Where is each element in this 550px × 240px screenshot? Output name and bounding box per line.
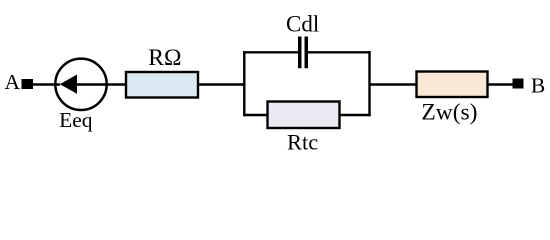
right junction vertical wire bbox=[368, 51, 370, 116]
wire Zw(s) to terminal B bbox=[488, 83, 514, 86]
wire RΩ to node (left vertical) bbox=[198, 83, 245, 86]
resistor RΩ bbox=[126, 72, 198, 98]
wire triangle base to resistor RΩ bbox=[77, 83, 126, 86]
left junction vertical wire bbox=[243, 51, 245, 116]
svg-text:RΩ: RΩ bbox=[148, 45, 181, 71]
Eeq arrow triangle bbox=[60, 75, 77, 94]
capacitor Cdl right plate bbox=[305, 37, 309, 69]
capacitor Cdl left plate bbox=[298, 37, 302, 69]
svg-text:Zw(s): Zw(s) bbox=[421, 99, 477, 125]
terminal square B bbox=[513, 79, 524, 89]
current source Eeq circle bbox=[55, 59, 106, 110]
svg-text:Rtc: Rtc bbox=[287, 130, 318, 155]
bottom branch wire Rtc to right bbox=[340, 114, 371, 116]
svg-text:Eeq: Eeq bbox=[59, 108, 93, 132]
top branch wire left to capacitor bbox=[243, 51, 298, 53]
wire right junction to Zw(s) bbox=[370, 83, 418, 86]
bottom branch wire left to Rtc bbox=[243, 114, 268, 116]
top branch wire capacitor to right bbox=[308, 51, 371, 53]
svg-text:B: B bbox=[531, 73, 545, 97]
svg-text:Cdl: Cdl bbox=[286, 11, 319, 36]
resistor Rtc bbox=[268, 102, 340, 129]
Warburg impedance Zw(s) bbox=[417, 72, 488, 98]
wire A-square to Eeq triangle tip bbox=[33, 83, 60, 86]
svg-text:A: A bbox=[5, 70, 21, 94]
terminal square A bbox=[22, 79, 34, 89]
